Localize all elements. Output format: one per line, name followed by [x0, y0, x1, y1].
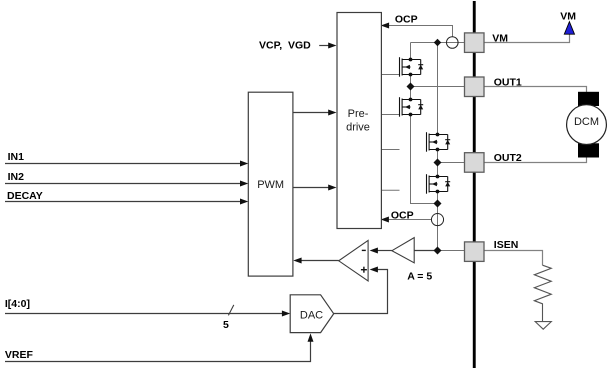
svg-text:I[4:0]: I[4:0] — [5, 298, 30, 310]
svg-text:VM: VM — [560, 11, 576, 23]
svg-text:IN1: IN1 — [8, 151, 25, 163]
svg-text:OUT2: OUT2 — [494, 152, 522, 164]
svg-text:DECAY: DECAY — [7, 190, 43, 202]
svg-text:Pre-: Pre- — [348, 108, 369, 120]
svg-text:A = 5: A = 5 — [407, 271, 432, 283]
svg-text:5: 5 — [223, 319, 229, 331]
svg-text:VCP, VGD: VCP, VGD — [259, 40, 311, 52]
svg-text:DAC: DAC — [300, 310, 323, 322]
svg-text:VREF: VREF — [5, 349, 34, 361]
svg-text:OUT1: OUT1 — [494, 77, 522, 89]
svg-text:OCP: OCP — [395, 14, 418, 26]
svg-text:IN2: IN2 — [8, 171, 25, 183]
svg-text:OCP: OCP — [391, 210, 414, 222]
svg-text:ISEN: ISEN — [494, 239, 519, 251]
svg-text:drive: drive — [346, 121, 370, 133]
svg-text:DCM: DCM — [574, 116, 599, 128]
svg-text:VM: VM — [492, 33, 508, 45]
svg-text:PWM: PWM — [257, 179, 284, 191]
